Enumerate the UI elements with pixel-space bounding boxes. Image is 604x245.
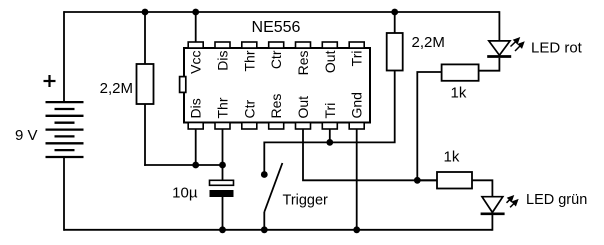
wire top rail right drop to LED rot — [498, 11, 500, 41]
IC U1 top pin boxes — [188, 42, 364, 129]
wire Out pin down and right to 1k bottom — [303, 129, 437, 180]
resistor R2 2,2M right — [387, 33, 403, 71]
wire Vcc pin up — [195, 12, 197, 42]
pin top 7 Tri — [349, 42, 364, 48]
node trigger contact — [261, 171, 268, 178]
LED D1 rot — [487, 41, 511, 57]
wire Tri pin down — [329, 129, 331, 142]
capacitor C1 10u bottom plate — [210, 190, 234, 197]
wire lead resistor R1 top — [144, 12, 146, 64]
LED D2 arrows — [507, 196, 518, 207]
node rail / Gnd — [353, 226, 360, 233]
resistor R4 1k bottom — [437, 172, 472, 189]
wire battery top lead — [63, 11, 65, 102]
svg-text:Res: Res — [295, 51, 311, 76]
svg-text:Trigger: Trigger — [283, 193, 329, 209]
IC U1 NE556 body — [184, 48, 370, 123]
svg-text:LED rot: LED rot — [531, 40, 583, 57]
IC U1 notch — [180, 77, 186, 93]
node 1k junction — [414, 177, 421, 184]
svg-text:Tri: Tri — [349, 51, 365, 67]
pin bottom 2 Thr — [215, 123, 230, 130]
wire Gnd pin down — [356, 129, 358, 230]
svg-text:Dis: Dis — [215, 51, 231, 71]
svg-text:Gnd: Gnd — [349, 92, 365, 118]
pin bottom 3 Ctr — [242, 123, 257, 130]
pin bottom 1 Dis — [188, 123, 203, 130]
svg-text:Ctr: Ctr — [241, 100, 257, 119]
node top rail / R2 — [391, 9, 398, 16]
trigger switch bottom stub — [263, 212, 265, 230]
svg-text:1k: 1k — [444, 148, 460, 165]
svg-text:2,2M: 2,2M — [100, 80, 133, 97]
svg-text:2,2M: 2,2M — [412, 34, 445, 51]
pin top 4 Ctr — [269, 42, 284, 48]
LED D2 gruen — [481, 197, 505, 214]
svg-text:Out: Out — [322, 50, 338, 73]
svg-text:NE556: NE556 — [252, 19, 301, 36]
svg-text:9 V: 9 V — [15, 127, 38, 144]
wire LED gruen bottom lead — [491, 215, 493, 231]
pin top 5 Res — [296, 42, 311, 48]
pin bottom 7 Gnd — [349, 123, 364, 130]
IC pin labels top row (rotated) — [188, 50, 365, 75]
wire 1k R4 right lead to LED gruen — [472, 180, 492, 197]
LED D1 arrows — [511, 38, 524, 51]
wire Thr pin down to cap — [222, 129, 224, 180]
svg-text:Ctr: Ctr — [268, 50, 284, 69]
node rail / trigger — [261, 226, 268, 233]
battery B1 9V — [46, 102, 84, 157]
pin top 6 Out — [322, 42, 337, 48]
svg-text:Vcc: Vcc — [188, 51, 204, 74]
svg-text:Thr: Thr — [241, 50, 257, 71]
svg-text:1k: 1k — [451, 85, 467, 102]
pin top 2 Dis — [215, 42, 230, 48]
svg-text:Dis: Dis — [188, 98, 204, 118]
wire lead resistor R1 bottom — [144, 104, 146, 166]
node Thr/cap junction — [219, 162, 226, 169]
capacitor C1 10u top plate — [210, 180, 234, 185]
trigger switch lever — [264, 163, 282, 212]
svg-text:Thr: Thr — [215, 97, 231, 118]
wire LED rot bottom to 1k R3 — [479, 58, 500, 71]
pin bottom 5 Out — [296, 123, 311, 130]
wire bottom rail — [64, 229, 493, 231]
node rail / cap — [219, 226, 226, 233]
wire battery bottom lead — [63, 157, 65, 231]
resistor R1 2,2M left — [137, 64, 154, 104]
node top rail / Vcc — [192, 9, 199, 16]
wire top rail — [64, 11, 500, 13]
wire Dis pin down — [195, 129, 197, 165]
wire 1k R3 left lead down — [417, 72, 441, 180]
svg-text:Res: Res — [268, 94, 284, 119]
wire cap bottom lead — [222, 197, 224, 230]
svg-text:Tri: Tri — [322, 103, 338, 119]
svg-text:LED grün: LED grün — [526, 192, 587, 208]
pin bottom 6 Tri — [322, 123, 337, 130]
pin top 1 Vcc — [188, 42, 203, 48]
pin top 3 Thr — [242, 42, 257, 48]
resistor R3 1k top — [442, 64, 479, 80]
wire 1k R4 left lead — [417, 179, 437, 181]
pin bottom 4 Res — [269, 123, 284, 130]
wire horizontal Dis/Thr net — [144, 164, 222, 166]
node Dis junction — [192, 162, 199, 169]
IC pin labels bottom row (rotated) — [188, 92, 365, 118]
wire lead resistor R2 top — [394, 12, 396, 33]
wire trigger net horizontal — [264, 71, 394, 172]
svg-text:10µ: 10µ — [172, 185, 198, 202]
node top rail / R1 — [142, 9, 149, 16]
label + battery — [44, 75, 56, 87]
svg-text:Out: Out — [295, 96, 311, 119]
node Tri junction — [326, 139, 333, 146]
